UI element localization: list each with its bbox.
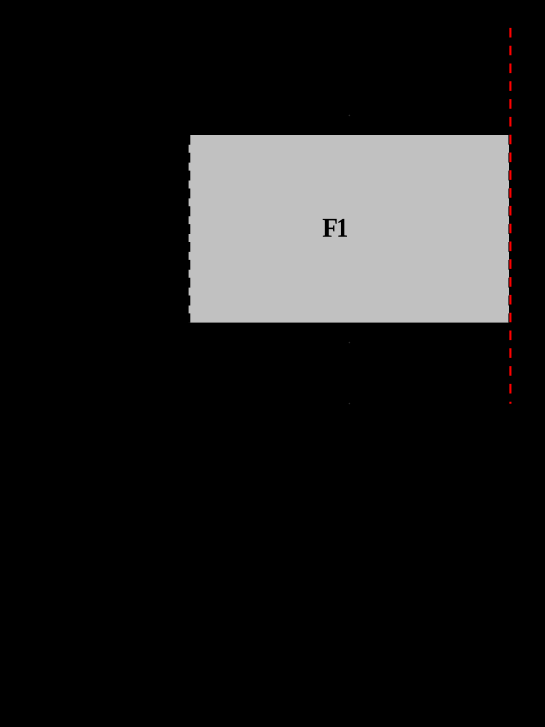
label F1 (323, 219, 347, 237)
faint dot middle (center axis marker) (349, 342, 351, 344)
block right dashed edge (508, 135, 510, 323)
red dashed reference line (509, 28, 511, 404)
faint dot top (center axis marker) (349, 115, 351, 117)
block (gray body) (189, 135, 509, 323)
block left dashed edge (188, 135, 190, 323)
faint dot bottom (center axis marker) (349, 403, 351, 405)
